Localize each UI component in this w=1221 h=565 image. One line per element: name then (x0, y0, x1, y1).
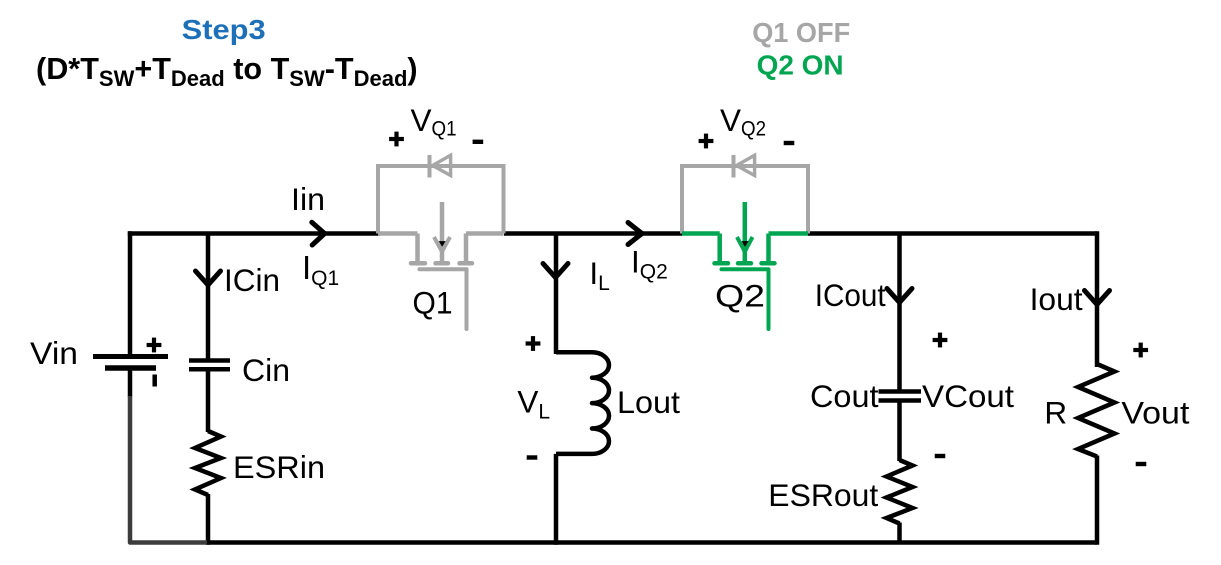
svg-text:Iout: Iout (1030, 281, 1083, 317)
svg-text:ICin: ICin (224, 262, 280, 298)
svg-text:Q1: Q1 (413, 285, 453, 321)
svg-text:R: R (1044, 395, 1067, 431)
svg-text:Step3: Step3 (182, 14, 266, 45)
svg-text:Cin: Cin (242, 352, 290, 388)
svg-text:ESRin: ESRin (233, 449, 325, 485)
svg-text:ESRout: ESRout (768, 477, 878, 513)
svg-text:Lout: Lout (617, 384, 680, 420)
svg-text:Cout: Cout (810, 378, 879, 414)
svg-text:Q1 OFF: Q1 OFF (752, 17, 850, 48)
svg-text:ICout: ICout (815, 277, 886, 313)
svg-text:Q2 ON: Q2 ON (757, 50, 844, 81)
svg-text:Q2: Q2 (715, 278, 765, 314)
svg-text:Iin: Iin (291, 181, 325, 217)
svg-text:Vout: Vout (1121, 395, 1189, 431)
svg-text:Vin: Vin (30, 335, 78, 371)
svg-text:VCout: VCout (922, 378, 1014, 414)
